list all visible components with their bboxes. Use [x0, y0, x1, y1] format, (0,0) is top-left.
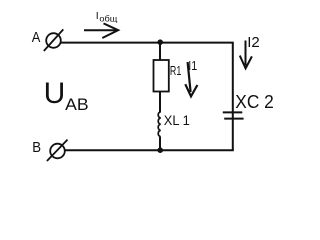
wire middle branch lower (inductor to bottom junction) [159, 137, 161, 150]
svg-text:A: A [32, 30, 41, 46]
svg-text:I: I [96, 10, 99, 22]
svg-text:U: U [44, 77, 66, 110]
svg-text:B: B [32, 140, 41, 156]
inductor XL1 coil [158, 112, 161, 137]
wire bottom (B terminal to right corner) [64, 149, 234, 151]
svg-text:AB: AB [65, 95, 89, 114]
svg-text:XL 1: XL 1 [164, 112, 190, 128]
svg-text:I1: I1 [188, 59, 197, 73]
wire right branch vertical [232, 43, 234, 151]
wire middle branch between resistor and inductor [159, 92, 161, 113]
current arrow I1 [185, 62, 197, 96]
terminal A [44, 29, 64, 51]
svg-text:I2: I2 [247, 34, 260, 51]
junction node bottom [157, 147, 163, 153]
label I_obshch [96, 10, 118, 23]
resistor R1 [154, 60, 169, 92]
current arrow I_obshch [84, 23, 118, 38]
capacitor XC2 bottom plate [224, 118, 243, 120]
terminal B [47, 140, 68, 161]
current arrow I2 [240, 41, 252, 69]
capacitor XC2 top plate [223, 111, 243, 113]
voltage label U_AB [44, 77, 89, 114]
wire middle branch upper (junction to resistor) [159, 43, 161, 61]
wire top (A terminal to right corner) [61, 42, 234, 44]
svg-text:общ: общ [99, 13, 117, 23]
junction node top [157, 39, 163, 45]
svg-text:R1: R1 [170, 63, 181, 78]
svg-text:XC 2: XC 2 [235, 92, 273, 112]
